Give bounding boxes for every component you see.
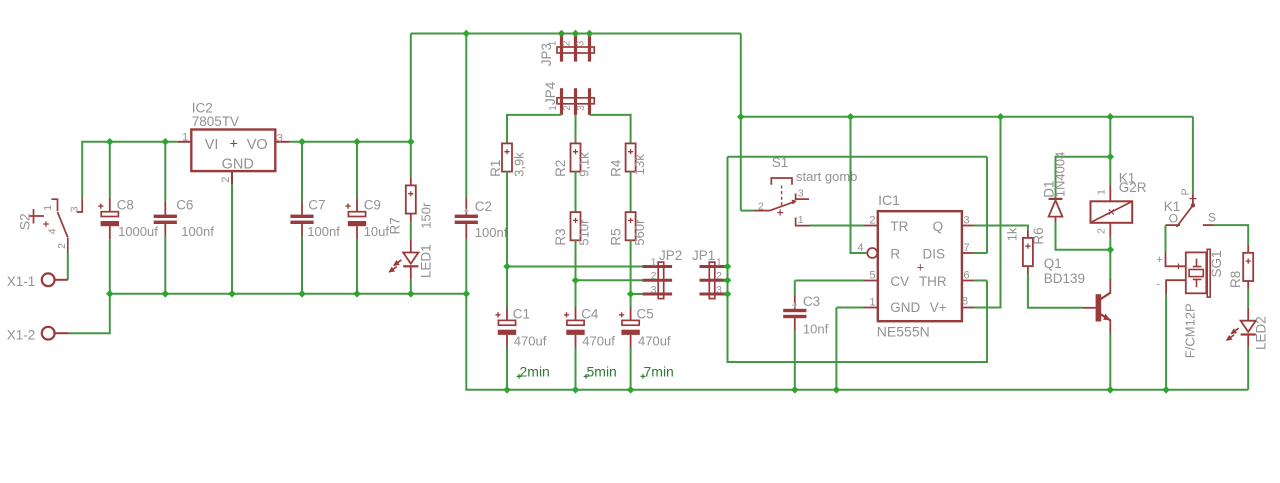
wire to S1 pin2	[741, 210, 755, 212]
svg-text:VO: VO	[247, 137, 268, 153]
capacitor C3 10nf	[783, 309, 806, 312]
svg-text:C4: C4	[581, 306, 599, 321]
svg-text:X1-2: X1-2	[7, 328, 36, 343]
resistor R6 1k	[1023, 238, 1033, 266]
wire DIS riser	[986, 157, 988, 253]
svg-text:R: R	[890, 247, 900, 262]
svg-text:S2: S2	[16, 213, 32, 230]
junction +5 bus left	[737, 113, 745, 121]
svg-text:2: 2	[716, 270, 722, 282]
wire X1-2 to ground bus	[69, 294, 110, 333]
svg-text:9,1k: 9,1k	[577, 152, 592, 177]
wire +5 bus	[741, 116, 1193, 118]
svg-text:C9: C9	[364, 197, 381, 212]
svg-text:V+: V+	[930, 300, 947, 315]
wire C9 bottom	[356, 226, 358, 239]
svg-text:X1-1: X1-1	[7, 274, 36, 289]
svg-text:R3: R3	[553, 228, 568, 245]
junction node C	[627, 290, 635, 298]
wire C4 top	[575, 280, 577, 307]
svg-text:1k: 1k	[1005, 227, 1020, 241]
wire C8 top	[109, 142, 111, 198]
svg-text:-: -	[1156, 279, 1160, 291]
junction bot C4	[572, 386, 580, 394]
svg-text:100nf: 100nf	[475, 225, 508, 240]
LED LED2	[1241, 321, 1256, 332]
wire IC2 GND to ground bus	[231, 184, 233, 294]
wire C7 bottom	[301, 223, 303, 236]
wire rail to VO	[410, 34, 412, 142]
wire DIS	[974, 252, 987, 254]
svg-text:+: +	[1156, 254, 1162, 266]
junction node B	[572, 277, 580, 285]
wire node B to JP2.2	[576, 279, 643, 281]
svg-text:GND: GND	[890, 300, 920, 315]
junction C8	[106, 138, 114, 146]
svg-text:5min: 5min	[587, 363, 617, 379]
wire C4 bottom	[575, 335, 577, 348]
resistor R7 150r	[406, 185, 416, 213]
junction C6	[162, 138, 170, 146]
JP4 pin 1	[560, 88, 563, 115]
wire R5 to node C	[630, 240, 632, 294]
svg-text:2: 2	[220, 177, 232, 183]
junction JP3.1	[558, 30, 566, 38]
wire JP4.3 to R4	[590, 115, 631, 143]
junction gnd C8	[106, 290, 114, 298]
wire R6 to Q1 base	[1027, 266, 1029, 274]
op-amp U1 / timer IC1 NE555N box	[878, 211, 962, 321]
wire +5 to reset pin	[851, 117, 867, 253]
svg-text:4: 4	[857, 242, 863, 254]
pushbutton S1	[771, 178, 792, 185]
resistor R8	[1243, 253, 1253, 281]
capacitor C5 470uf	[622, 320, 639, 325]
svg-text:LED1: LED1	[419, 244, 434, 278]
wire C3 top	[794, 281, 796, 296]
junction C9	[353, 138, 361, 146]
svg-text:100nf: 100nf	[181, 224, 214, 239]
svg-text:2: 2	[758, 201, 764, 213]
svg-text:7805TV: 7805TV	[192, 114, 239, 129]
svg-text:JP2: JP2	[659, 248, 682, 263]
svg-text:1: 1	[716, 256, 722, 268]
SG1 plus pin	[1166, 253, 1186, 267]
svg-text:1N4004: 1N4004	[1052, 152, 1067, 198]
wire C1 top	[506, 267, 508, 308]
junction gnd IC2	[228, 290, 236, 298]
IC2 pin3 stub	[275, 141, 289, 143]
wire S2 pin3 to IC2 VI	[82, 142, 178, 199]
resistor R5 560r	[626, 212, 636, 240]
svg-text:100nf: 100nf	[307, 224, 340, 239]
junction relay riser	[1107, 113, 1115, 121]
svg-text:470uf: 470uf	[638, 333, 671, 348]
SG1 minus pin	[1166, 280, 1186, 294]
jumper JP3	[557, 47, 594, 53]
wire THR	[974, 280, 987, 282]
svg-text:GND: GND	[222, 157, 254, 173]
svg-text:3: 3	[964, 214, 970, 226]
capacitor C2	[455, 215, 478, 218]
capacitor C9	[348, 212, 365, 217]
svg-text:O: O	[1169, 211, 1178, 225]
ground bus (left)	[110, 293, 467, 295]
capacitor C4 470uf	[567, 320, 584, 325]
JP4 pin 3	[588, 88, 591, 115]
capacitor C1 470uf	[498, 320, 515, 325]
connector X1-2	[42, 327, 55, 340]
svg-text:TR: TR	[890, 219, 908, 234]
svg-text:C8: C8	[117, 197, 134, 212]
svg-text:Q1: Q1	[1044, 256, 1062, 271]
JP2 pin 3	[643, 293, 673, 296]
wire C9 top	[356, 142, 358, 198]
IC2 pin1 stub	[178, 141, 192, 143]
svg-text:7min: 7min	[644, 363, 674, 379]
svg-text:C5: C5	[637, 306, 654, 321]
wire JP4.1 to R1	[507, 115, 562, 143]
wire D1 top	[1056, 157, 1111, 199]
junction JP1.2	[724, 277, 732, 285]
label 5min	[584, 374, 589, 379]
svg-text:Q: Q	[933, 219, 944, 234]
junction JP3.3	[586, 30, 594, 38]
wire LED2 to ground	[1247, 335, 1249, 348]
jumper JP1 bar	[709, 262, 715, 299]
wire R3 to node B	[575, 240, 577, 280]
svg-text:R6: R6	[1031, 227, 1046, 244]
wire IC2 VO rail	[290, 141, 411, 143]
svg-text:C2: C2	[475, 199, 492, 214]
junction gnd LED1	[407, 290, 415, 298]
svg-text:start gomb: start gomb	[796, 169, 857, 184]
svg-text:R5: R5	[609, 228, 624, 245]
svg-text:NE555N: NE555N	[877, 323, 930, 339]
svg-text:2min: 2min	[520, 363, 550, 379]
wire O to SG1+	[1165, 225, 1167, 252]
svg-text:7: 7	[964, 242, 970, 254]
junction bot IC1 gnd	[833, 386, 841, 394]
resistor R2 9.1k	[571, 143, 581, 171]
svg-text:3: 3	[798, 188, 804, 200]
wire C6 bottom	[164, 223, 166, 236]
svg-text:4: 4	[47, 228, 59, 234]
svg-text:SG1: SG1	[1209, 250, 1224, 277]
wire R4 to R5	[630, 172, 632, 213]
switch S2	[51, 199, 57, 211]
JP2 pin 2	[643, 279, 673, 282]
jumper JP2 bar	[658, 262, 664, 299]
wire S2 to X1-1	[67, 252, 69, 280]
svg-text:2: 2	[562, 105, 573, 111]
wire C8 bottom	[109, 226, 111, 239]
svg-text:BD139: BD139	[1044, 271, 1085, 286]
junction bot SG1	[1162, 386, 1170, 394]
svg-text:R4: R4	[609, 159, 624, 177]
svg-text:470uf: 470uf	[514, 333, 547, 348]
junction JP3.2	[572, 30, 580, 38]
junction bot C5	[627, 386, 635, 394]
wire +5V top rail	[411, 33, 741, 35]
wire bottom ground bus	[466, 294, 1248, 390]
svg-text:R7: R7	[388, 217, 403, 234]
wire Q to R6	[974, 226, 1028, 230]
junction JP1.1	[724, 263, 732, 271]
junction bot C3	[791, 386, 799, 394]
wire GND pin	[836, 307, 863, 309]
wire Q1 collector	[1109, 279, 1111, 292]
svg-text:560r: 560r	[632, 219, 647, 246]
wire R2 to R3	[575, 172, 577, 213]
svg-text:IC1: IC1	[878, 192, 900, 208]
wire +5 to relay	[1109, 117, 1111, 185]
junction top rail / C2	[463, 30, 471, 38]
junction reset riser	[847, 113, 855, 121]
resistor R1 3.9k	[502, 143, 512, 171]
wire S to R8	[1213, 225, 1248, 245]
wire node C to JP2.3	[631, 293, 643, 295]
svg-text:1: 1	[1095, 189, 1107, 195]
wire relay pin2	[1109, 223, 1111, 238]
svg-text:1: 1	[182, 132, 188, 144]
svg-text:3: 3	[69, 206, 81, 212]
svg-text:2: 2	[651, 270, 657, 282]
IC2 pin2 stub	[231, 171, 233, 184]
svg-text:3: 3	[576, 40, 587, 46]
svg-text:13k: 13k	[632, 154, 647, 175]
svg-text:6: 6	[964, 269, 970, 281]
transistor Q1 BD139	[1096, 294, 1102, 321]
resistor R4 13k	[626, 143, 636, 171]
wire V+ to +5	[974, 117, 1001, 308]
svg-text:P: P	[1180, 188, 1192, 195]
jumper JP4	[557, 98, 594, 104]
svg-text:R2: R2	[553, 160, 568, 177]
JP4 pin 2	[574, 88, 577, 115]
relay coil K1 G2R	[1109, 185, 1111, 201]
svg-text:1: 1	[548, 40, 559, 46]
wire Q1 emitter	[1109, 321, 1111, 334]
wire S1 to TR	[810, 225, 864, 227]
wire D1 anode stub	[1055, 217, 1057, 223]
svg-text:150r: 150r	[418, 202, 433, 229]
wire +5 drop to S1	[740, 34, 742, 211]
buzzer SG1 F/CM12P	[1186, 252, 1207, 293]
JP3 pin 1	[560, 35, 563, 62]
wire LED1 to ground bus	[410, 266, 412, 279]
svg-text:S1: S1	[772, 155, 789, 170]
svg-text:R1: R1	[488, 160, 503, 177]
wire CV	[795, 280, 864, 282]
svg-text:2: 2	[869, 214, 875, 226]
svg-text:DIS: DIS	[922, 247, 945, 262]
svg-text:470uf: 470uf	[582, 333, 615, 348]
svg-text:3: 3	[277, 133, 283, 145]
wire C3 bottom	[794, 318, 796, 331]
svg-text:CV: CV	[890, 274, 909, 289]
wire C5 bottom	[630, 335, 632, 348]
svg-text:G2R: G2R	[1119, 180, 1147, 195]
junction bot C1	[503, 386, 511, 394]
wire R8 to LED2	[1247, 281, 1249, 289]
svg-text:S: S	[1208, 210, 1216, 224]
wire C2 bottom	[465, 223, 467, 239]
svg-text:JP1: JP1	[692, 248, 715, 263]
junction gnd C7	[298, 290, 306, 298]
svg-text:2: 2	[1095, 228, 1107, 234]
relay contact K1	[1192, 194, 1194, 205]
wire R7 to LED1	[410, 214, 412, 222]
JP3 pin 3	[588, 35, 591, 62]
svg-text:3: 3	[576, 105, 587, 111]
svg-text:1: 1	[651, 256, 657, 268]
svg-text:1: 1	[869, 296, 875, 308]
IC1 pin stubs	[864, 225, 878, 227]
wire C6 top	[164, 142, 166, 201]
svg-text:1: 1	[548, 105, 559, 111]
svg-text:10uf: 10uf	[364, 224, 390, 239]
wire VO to R7	[410, 142, 412, 178]
svg-text:1: 1	[798, 214, 804, 226]
JP2 pin 1	[643, 265, 673, 268]
svg-text:10nf: 10nf	[803, 322, 829, 337]
wire RC node upper	[728, 156, 988, 158]
wire SG1- to ground	[1165, 295, 1167, 390]
svg-text:THR: THR	[919, 274, 947, 289]
junction C7	[298, 138, 306, 146]
junction gnd C9	[353, 290, 361, 298]
capacitor C8	[101, 212, 118, 217]
JP1 pin 2	[700, 279, 728, 282]
label 7min	[641, 374, 646, 379]
svg-text:C6: C6	[176, 197, 193, 212]
svg-text:LED2: LED2	[1254, 316, 1269, 350]
svg-text:R8: R8	[1228, 271, 1243, 288]
svg-text:5: 5	[869, 269, 875, 281]
svg-text:C1: C1	[513, 306, 530, 321]
wire JP4.2 to R2	[575, 115, 577, 143]
wire C2 top	[465, 34, 467, 199]
junction node A	[503, 263, 511, 271]
wire C5 top	[630, 294, 632, 307]
svg-text:3: 3	[651, 284, 657, 296]
svg-text:VI: VI	[205, 137, 219, 153]
svg-text:JP4: JP4	[543, 81, 558, 105]
junction JP1.3	[724, 290, 732, 298]
label 2min	[517, 374, 522, 379]
junction gnd C6	[162, 290, 170, 298]
contact S stub	[1203, 224, 1213, 226]
svg-text:1000uf: 1000uf	[118, 224, 158, 239]
svg-text:2: 2	[56, 243, 68, 249]
wire R1 to node A	[506, 172, 508, 267]
svg-text:+: +	[917, 260, 925, 275]
JP1 pin 1	[700, 265, 728, 268]
capacitor C6	[154, 215, 177, 218]
junction D1 top	[1107, 153, 1115, 161]
capacitor C7	[290, 215, 313, 218]
wire C1 bottom	[506, 335, 508, 348]
svg-text:F/CM12P: F/CM12P	[1182, 303, 1197, 358]
wire RC node lower loop	[728, 157, 988, 362]
svg-text:+: +	[230, 137, 238, 153]
svg-text:1: 1	[42, 205, 54, 211]
wire GND pin to bottom bus	[835, 308, 837, 390]
junction D1 bottom	[1107, 246, 1115, 254]
junction bot Q1	[1107, 386, 1115, 394]
wire +5 to contact P	[1192, 117, 1194, 194]
JP1 pin 3	[700, 293, 728, 296]
LED LED1	[403, 253, 418, 264]
svg-text:2: 2	[562, 40, 573, 46]
wire D1 bottom	[1056, 223, 1111, 250]
voltage regulator IC2 7805TV	[191, 130, 275, 172]
junction VO corner	[407, 138, 415, 146]
svg-text:3: 3	[716, 284, 722, 296]
svg-text:C3: C3	[803, 294, 820, 309]
wire node A to JP2.1	[507, 266, 643, 268]
connector X1-1	[42, 273, 55, 286]
JP3 pin 2	[574, 35, 577, 62]
svg-text:3,9k: 3,9k	[512, 152, 527, 177]
junction gnd C2	[463, 290, 471, 298]
contact O stub	[1166, 224, 1181, 226]
wire C7 top	[301, 142, 303, 201]
svg-text:510r: 510r	[577, 219, 592, 246]
resistor R3 510r	[571, 212, 581, 240]
junction V+ riser	[997, 113, 1005, 121]
svg-text:8: 8	[962, 295, 968, 307]
svg-text:C7: C7	[308, 197, 325, 212]
